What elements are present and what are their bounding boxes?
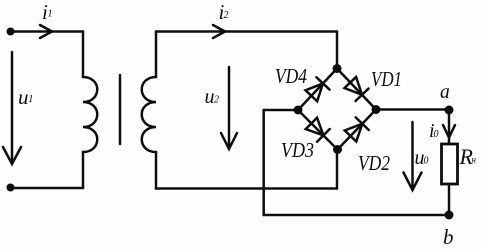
svg-text:VD2: VD2	[358, 151, 390, 175]
svg-text:1: 1	[28, 93, 34, 105]
svg-text:2: 2	[224, 10, 229, 21]
svg-text:VD3: VD3	[281, 138, 314, 162]
svg-text:u: u	[205, 86, 215, 108]
svg-text:u: u	[18, 85, 29, 109]
svg-text:0: 0	[434, 129, 439, 140]
svg-text:2: 2	[214, 95, 219, 106]
svg-text:1: 1	[48, 9, 53, 20]
svg-text:н: н	[472, 155, 477, 165]
svg-text:VD4: VD4	[275, 64, 307, 88]
svg-text:0: 0	[424, 156, 429, 167]
svg-text:b: b	[443, 225, 454, 249]
svg-text:VD1: VD1	[371, 67, 402, 91]
svg-text:a: a	[440, 82, 450, 103]
